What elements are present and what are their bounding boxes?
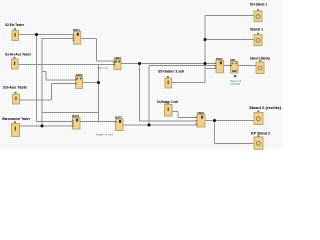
wire spur to G8 input 1 [42,72,76,81]
taster T5 pin label [167,76,169,78]
gate G1 input pins [73,34,75,36]
gate G5 box [197,115,205,128]
lamp L5 pin label [257,135,259,137]
lamp L1 pin label [257,9,259,11]
taster T5 box [165,78,172,88]
svg-text:S3-Aus Taste: S3-Aus Taste [3,86,27,90]
gate G3 box [216,60,224,73]
lamp L4 pin label [257,111,259,113]
wire W37 behind G1 with drop to T4 wire [42,39,97,127]
wire G8 output to node C [83,82,99,84]
lamp L1 box [254,11,262,22]
svg-text:S1-Hei Aus Taster: S1-Hei Aus Taster [5,53,32,57]
wire node D drop to lamp L5 [215,121,256,144]
wire G6 output to G5 input 3 [123,124,197,126]
wire G4 output to lamp L3 [238,65,256,67]
wire vertical from node A down to G7 input 1 [37,35,74,122]
wire node B drop to G5 input 2 [140,64,198,122]
wire G3 output to G4 input [224,65,231,67]
wire T2 output to G2 input 2 [18,64,114,66]
node on G6 output junction dot [148,124,151,127]
lamp L2 pin label [257,33,259,35]
gate G3 input pins [215,62,217,64]
gate G6 box [116,119,124,131]
wire A: G2 output to G3 input 1 [122,63,216,65]
svg-text:Stand 2 (rechts): Stand 2 (rechts) [249,106,281,110]
gate G4 input pin [230,65,232,67]
wire bus vertical x205 [204,16,206,83]
lamp L3 pin label [259,60,261,62]
wire T5 output to bus [172,82,206,84]
node B junction dot [138,62,141,65]
gate G8 box [76,77,83,89]
lamp L2 box [254,35,262,46]
lamp L3 box [256,62,264,74]
wire stub at y112 [42,112,99,114]
svg-text:Stand 1: Stand 1 [250,28,263,32]
node A junction dot [35,33,38,36]
taster T2 box [12,59,19,69]
wire bus to G3 input 3 [205,68,215,70]
node on T4 wire junction dot [41,125,44,128]
gate G4 box [231,62,239,74]
taster T6 box [165,105,173,117]
taster T3 box [13,94,20,104]
background grid [0,0,284,150]
node C junction dot [97,81,100,84]
taster T4 box [12,124,20,137]
taster T3 pin label [14,92,16,94]
gate G4 blue icon [234,75,236,77]
lamp L4 box [254,113,263,125]
gate G7 box [73,118,81,130]
taster T1 box [12,31,19,41]
lamp L5 box [254,137,263,149]
taster T6 pin label [167,103,169,105]
svg-text:S2-Eis Taster: S2-Eis Taster [5,23,25,27]
wire G7 output to G6 input [80,121,116,123]
svg-text:SYSTEM: SYSTEM [230,82,240,86]
wire T6 output to G5 input 1 [172,112,197,118]
svg-text:KP Stand 2: KP Stand 2 [251,131,270,135]
wire T1 output to G1 [19,34,75,36]
wire bus to lamp L1 [205,15,254,17]
wire T3 output riser to G8 input 2 [20,84,76,101]
svg-text:S5-Gabler 3 soll: S5-Gabler 3 soll [158,70,184,74]
gate G8 input pins [75,79,77,81]
taster T4 pin label [14,121,16,123]
wire bus to lamp L2 [205,39,254,41]
svg-text:KH Stand 1: KH Stand 1 [250,3,267,7]
node bus-L2 junction dot [204,38,207,41]
wire G5 output to lamp L4 [205,120,255,122]
gate G2 input pins [113,61,115,63]
svg-text:high = off: high = off [97,66,108,70]
taster T1 pin label [14,28,16,30]
node D junction dot [213,119,216,122]
gate G1 box [74,32,81,45]
svg-text:Warmwasser Taster: Warmwasser Taster [2,117,31,121]
taster T2 pin label [13,57,15,59]
gate G5 input pins [196,117,198,119]
gate G2 box [114,60,121,70]
svg-text:Stand 2 (Beide): Stand 2 (Beide) [250,57,270,61]
wire G1 output down to G2 input 1 [97,39,115,62]
gate G7 input pins [72,120,74,122]
wire node C drop to G6 input wire [98,65,100,122]
wire riser to G3 input 2 [149,66,215,126]
svg-text:high n on: high n on [96,132,114,136]
node bus-wireA junction dot [204,62,207,65]
gate G6 input pin [115,121,117,123]
wire T4 output to G7 input 2 [20,125,74,127]
